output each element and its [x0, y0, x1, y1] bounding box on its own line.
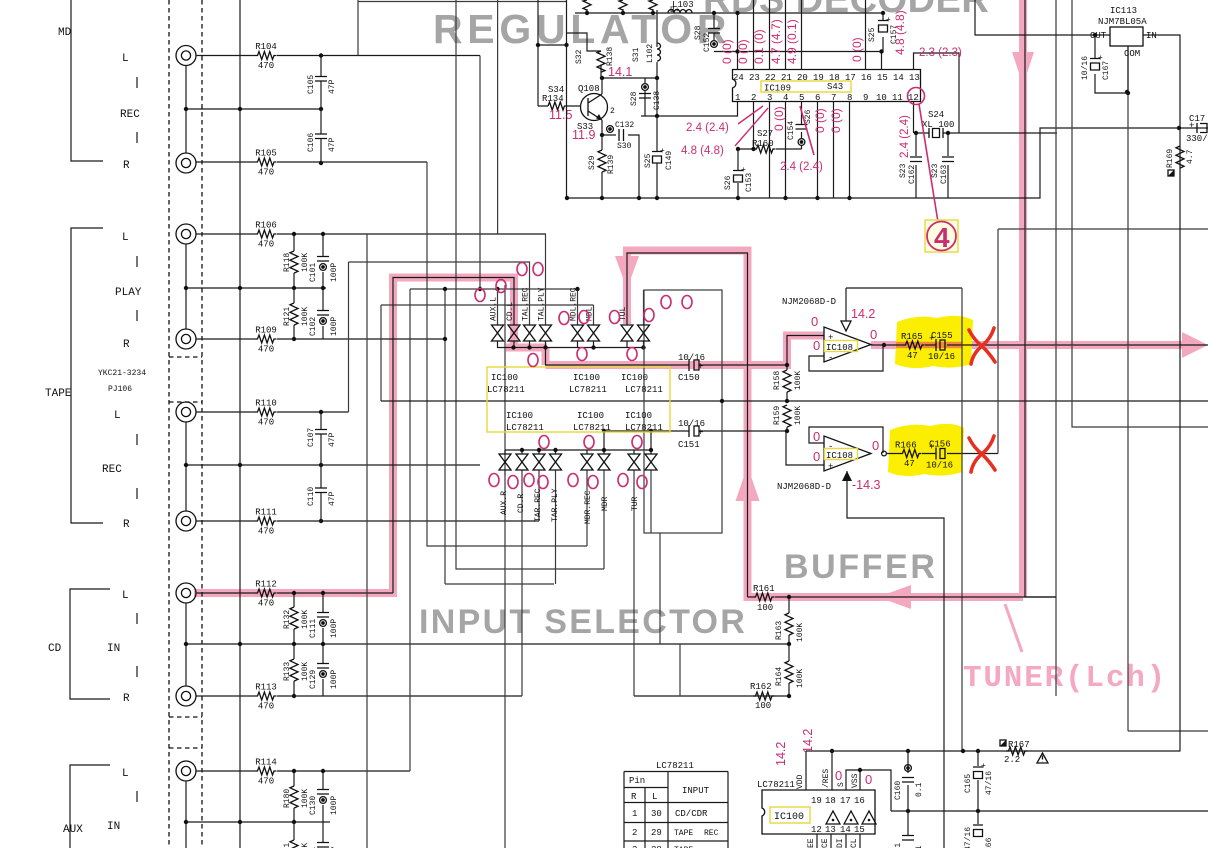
- arrow pink left on tuner line: [878, 585, 911, 609]
- svg-text:COM: COM: [1124, 49, 1140, 59]
- capacitor C155 10/16: [936, 339, 945, 351]
- svg-text:+: +: [828, 333, 833, 343]
- wire TAPE REC vertical: [186, 422, 480, 511]
- svg-text:100K: 100K: [796, 623, 805, 642]
- svg-text:0.1: 0.1: [915, 782, 924, 797]
- capacitor C167 10/16 electrolytic: [1095, 35, 1128, 93]
- svg-text:LC78211: LC78211: [656, 761, 694, 771]
- wire AUX L line: [196, 770, 410, 772]
- switch row bottom CD.R: [516, 454, 528, 470]
- svg-text:10/16: 10/16: [928, 352, 955, 362]
- switch row bottom TUR: [628, 454, 640, 470]
- wire vertical x998: [998, 229, 1208, 454]
- IC109 package body: [733, 70, 921, 102]
- capacitor C129 100P: [322, 644, 324, 663]
- svg-text:100: 100: [757, 603, 773, 613]
- resistor R167 2.2: [1006, 747, 1028, 755]
- label IC109 S43 yellow box: [761, 81, 851, 92]
- svg-text:0 (0): 0 (0): [720, 39, 734, 64]
- resistor R165 47: [903, 341, 925, 349]
- svg-text:100P: 100P: [330, 796, 339, 815]
- switch row bottom TAR.PLY: [550, 454, 562, 470]
- svg-text:LC78211: LC78211: [506, 423, 544, 433]
- arrow pink right at output edge: [1182, 332, 1208, 358]
- switch row top CD.L: [508, 325, 520, 341]
- svg-text:0: 0: [811, 314, 818, 329]
- svg-text:R: R: [123, 339, 130, 351]
- svg-text:IN: IN: [107, 643, 120, 655]
- svg-text:L: L: [122, 53, 129, 65]
- svg-text:11.9: 11.9: [572, 128, 595, 142]
- svg-text:C110: C110: [307, 487, 316, 506]
- svg-text:12: 12: [811, 825, 822, 835]
- connector CD R: [176, 686, 196, 706]
- wire TUL second column stub: [643, 290, 645, 325]
- svg-text:+: +: [698, 428, 703, 438]
- resistor top cut 3: [649, 0, 657, 10]
- power pin lower opamp: [847, 471, 944, 848]
- switch row top AUX.L: [492, 325, 504, 341]
- svg-text:IN: IN: [107, 821, 120, 833]
- leader pink to TUNER label: [1005, 604, 1022, 652]
- resistor R113 470: [255, 692, 277, 700]
- wire CD vertical: [186, 603, 789, 686]
- svg-text:R111: R111: [255, 508, 277, 518]
- svg-text:IC108: IC108: [826, 343, 853, 353]
- svg-text:MDR.REC: MDR.REC: [584, 490, 593, 524]
- svg-text:0.1 (0): 0.1 (0): [752, 29, 766, 64]
- connector AUX L: [176, 761, 196, 781]
- wire TAPE PLAY vertical: [186, 244, 326, 329]
- svg-text:+: +: [886, 16, 891, 25]
- svg-text:TUNER(Lch): TUNER(Lch): [963, 661, 1167, 696]
- svg-text:LC78211: LC78211: [487, 385, 525, 395]
- svg-text:S23: S23: [931, 163, 940, 178]
- switch matrix zero ovals bottom row: [489, 436, 647, 489]
- ground bus x240: [239, 0, 241, 848]
- wire TUL feed black under pink: [627, 253, 748, 597]
- wire loop box around TU switches: [644, 290, 722, 533]
- svg-text:13: 13: [909, 73, 920, 83]
- svg-text:47: 47: [907, 351, 918, 361]
- capacitor C175 330 electrolytic right edge: [1197, 123, 1207, 133]
- resistor top cut 1: [583, 0, 591, 10]
- svg-text:MD: MD: [58, 27, 72, 39]
- wire AUX R column down: [504, 285, 506, 848]
- wire long vertical x1128: [1128, 46, 1208, 731]
- wire long vertical x1074: [1072, 0, 1208, 427]
- wire ground rail y811: [891, 810, 1208, 812]
- svg-text:C132: C132: [615, 121, 634, 130]
- svg-text:0: 0: [870, 327, 877, 342]
- crystal S24 XL100: [916, 132, 1057, 134]
- red X mark lower: [969, 436, 995, 472]
- svg-text:S26: S26: [724, 175, 733, 190]
- inductor L102 S31: [656, 10, 658, 116]
- switch row top TUL: [621, 325, 633, 341]
- svg-text:CL: CL: [850, 838, 859, 848]
- svg-text:AUX.L: AUX.L: [490, 297, 499, 321]
- svg-text:4: 4: [934, 222, 950, 253]
- svg-text:NJM2068D-D: NJM2068D-D: [782, 297, 836, 307]
- svg-text:2.4 (2.4): 2.4 (2.4): [686, 122, 729, 134]
- svg-text:IC100: IC100: [621, 373, 648, 383]
- svg-text:1: 1: [735, 93, 740, 103]
- resistor R134 base: [564, 105, 581, 107]
- svg-text:16: 16: [854, 796, 865, 806]
- svg-text:47P: 47P: [328, 79, 337, 94]
- leader lines to pins: [735, 106, 768, 146]
- svg-text:C160: C160: [894, 781, 903, 800]
- svg-text:S25: S25: [644, 153, 653, 168]
- capacitor C110 47P: [320, 465, 322, 488]
- resistor R105 470: [255, 158, 277, 166]
- wire long feed from top x497: [497, 0, 499, 234]
- capacitor C150 10/16 electrolytic: [689, 359, 699, 371]
- svg-text:19: 19: [811, 796, 822, 806]
- svg-text:LC78211: LC78211: [625, 385, 663, 395]
- resistor R114 470: [255, 767, 277, 775]
- svg-text:0 (0): 0 (0): [850, 37, 864, 62]
- svg-text:0 (0): 0 (0): [736, 39, 750, 64]
- wire opamp2 output: [887, 453, 998, 455]
- wire collector line: [602, 77, 657, 79]
- resistor R132 100K: [293, 593, 295, 607]
- power pin upper opamp: [846, 288, 962, 327]
- bracket MD: [71, 0, 103, 161]
- svg-text:TAPE: TAPE: [45, 388, 72, 400]
- svg-text:LC78211: LC78211: [757, 780, 795, 790]
- wire supply rail y751: [806, 750, 1180, 752]
- leader to circle 4: [919, 104, 938, 222]
- svg-text:AUX: AUX: [63, 824, 83, 836]
- svg-text:R181: R181: [283, 843, 292, 848]
- wire PLAY L to TAL.PLY: [545, 234, 547, 325]
- svg-text:4.7 (4.7): 4.7 (4.7): [769, 19, 783, 64]
- svg-text:R109: R109: [255, 326, 277, 336]
- wire base feed jog: [538, 0, 567, 106]
- op-amp IC108 upper: [824, 327, 871, 362]
- svg-text:470: 470: [258, 702, 274, 712]
- svg-text:CE: CE: [821, 838, 830, 848]
- switch row bottom MDR.REC: [581, 454, 593, 470]
- svg-text:R: R: [631, 792, 637, 802]
- svg-text:R: R: [123, 160, 130, 172]
- svg-text:IC100: IC100: [506, 411, 533, 421]
- wire TAPE REC L line: [196, 411, 349, 413]
- yellow box IC100 switch bank: [487, 367, 670, 432]
- svg-text:R: R: [123, 693, 130, 705]
- wire long vertical x1056: [1055, 0, 1057, 696]
- capacitor C101 100P: [322, 234, 324, 256]
- svg-text:R133: R133: [283, 662, 292, 681]
- svg-text:R160: R160: [752, 139, 774, 149]
- resistor R158 100K: [783, 370, 791, 392]
- svg-text:C167: C167: [1102, 61, 1111, 80]
- wire long vertical black in pink x1025: [1025, 0, 1056, 597]
- wire MD R to MDR column: [427, 162, 587, 546]
- resistor R112 470: [255, 589, 277, 597]
- svg-text:100: 100: [755, 701, 771, 711]
- wire pink highlight TU elbow: [627, 251, 752, 602]
- wire MD group vertical: [186, 66, 321, 153]
- svg-text:10: 10: [876, 93, 887, 103]
- svg-text:10/16: 10/16: [678, 419, 705, 429]
- svg-text:IC113: IC113: [1110, 6, 1137, 16]
- svg-text:4.9 (0.1): 4.9 (0.1): [785, 19, 799, 64]
- svg-text:R158: R158: [773, 371, 782, 390]
- red X mark upper: [969, 328, 995, 364]
- resistor R139 S29: [601, 135, 603, 150]
- svg-text:L: L: [114, 410, 121, 422]
- bracket CD: [70, 589, 110, 699]
- svg-text:+: +: [698, 362, 703, 372]
- capacitor C160 0.1: [907, 751, 909, 811]
- circled pin 12: [908, 88, 925, 105]
- wire regulator ground bus: [567, 128, 1208, 198]
- svg-text:166: 166: [985, 837, 994, 848]
- svg-text:0: 0: [835, 768, 842, 783]
- wire AUX vertical: [186, 781, 330, 848]
- connector MD L: [176, 46, 196, 66]
- svg-text:R163: R163: [775, 621, 784, 640]
- warning triangle: [1037, 753, 1048, 763]
- svg-text:C163: C163: [940, 165, 949, 184]
- wire buffered L line through C150: [546, 336, 825, 366]
- svg-text:S32: S32: [575, 49, 584, 64]
- svg-text:C154: C154: [787, 121, 796, 140]
- svg-text:R165: R165: [901, 332, 923, 342]
- svg-text:2: 2: [751, 93, 756, 103]
- svg-text:C149: C149: [665, 151, 674, 170]
- wire MDL feed y305: [381, 305, 594, 401]
- svg-text:PJ106: PJ106: [108, 385, 132, 394]
- wire switch output bus top row: [498, 341, 644, 348]
- svg-text:0: 0: [813, 449, 820, 464]
- svg-text:470: 470: [258, 61, 274, 71]
- svg-text:2.2: 2.2: [1004, 755, 1020, 765]
- dashed connector boundary line 1: [168, 0, 170, 848]
- svg-text:10/16: 10/16: [926, 461, 953, 471]
- svg-text:R167: R167: [1008, 740, 1030, 750]
- feedback loop lower opamp: [809, 427, 883, 453]
- svg-text:R132: R132: [283, 610, 292, 629]
- svg-text:47/16: 47/16: [964, 827, 973, 848]
- wire long vertical x367: [366, 234, 368, 848]
- svg-text:IC100: IC100: [625, 411, 652, 421]
- svg-text:2.4 (2.4): 2.4 (2.4): [899, 115, 911, 158]
- svg-text:470: 470: [258, 168, 274, 178]
- svg-text:470: 470: [258, 418, 274, 428]
- svg-text:L: L: [122, 232, 129, 244]
- wire left regulator rail: [566, 0, 568, 198]
- capacitor C166 47/16 partial: [977, 811, 979, 824]
- switch row top TAL.PLY: [540, 325, 552, 341]
- svg-text:R121: R121: [283, 307, 292, 326]
- svg-text:S31: S31: [632, 47, 641, 62]
- switch row bottom MDR: [598, 454, 610, 470]
- wire tuner line black: [748, 596, 1057, 598]
- svg-text:18: 18: [825, 796, 836, 806]
- connector TAPE REC R: [176, 511, 196, 531]
- switch matrix zero ovals top row: [475, 263, 692, 367]
- capacitor C162 S23: [915, 133, 917, 198]
- svg-text:2: 2: [610, 107, 615, 116]
- svg-text:L: L: [122, 590, 129, 602]
- svg-text:AUX.R: AUX.R: [500, 491, 509, 515]
- svg-text:470: 470: [258, 345, 274, 355]
- capacitor C132 S30: [602, 135, 639, 198]
- svg-text:S27: S27: [757, 129, 773, 139]
- svg-text:S23: S23: [899, 163, 908, 178]
- svg-text:47P: 47P: [328, 491, 337, 506]
- resistor R104 470: [255, 52, 277, 60]
- svg-text:IC100: IC100: [774, 812, 804, 823]
- resistor R118 100K: [293, 234, 295, 251]
- svg-text:RDS DECODER: RDS DECODER: [703, 0, 989, 21]
- svg-text:+: +: [981, 762, 986, 771]
- svg-text:0: 0: [865, 772, 872, 787]
- svg-text:CD/CDR: CD/CDR: [675, 809, 708, 819]
- resistor R181 100K partial bottom: [293, 822, 295, 840]
- svg-text:R134: R134: [542, 94, 564, 104]
- wires IC100 top pins: [806, 751, 891, 811]
- junction dots left column: [184, 107, 188, 111]
- svg-text:29: 29: [651, 828, 662, 838]
- bracket AUX: [70, 765, 110, 848]
- svg-text:14.2: 14.2: [801, 729, 815, 753]
- wire pink highlight opamp output: [871, 341, 1192, 349]
- svg-text:R159: R159: [773, 406, 782, 425]
- resistor R161 100: [753, 593, 775, 601]
- resistor R138 S32: [597, 51, 605, 72]
- capacitor C163 S23: [947, 133, 949, 198]
- capacitor C131 100P partial bottom: [322, 822, 324, 842]
- svg-text:11.5: 11.5: [549, 108, 572, 122]
- wire opamp1 output: [871, 344, 1208, 346]
- svg-text:R169: R169: [1166, 149, 1175, 168]
- wire CD common extension: [679, 644, 681, 696]
- wire TAPE PLAY L line: [196, 233, 546, 235]
- switch row top MDL: [588, 325, 600, 341]
- svg-text:100P: 100P: [330, 670, 339, 689]
- capacitor C154 on pin5: [801, 102, 803, 149]
- capacitor C152 S28: [713, 13, 715, 28]
- svg-text:CD.L: CD.L: [506, 302, 515, 321]
- capacitor C111 100P: [322, 593, 324, 612]
- capacitor C102 100P: [322, 288, 324, 310]
- svg-text:R118: R118: [283, 253, 292, 272]
- svg-text:C105: C105: [307, 75, 316, 94]
- svg-text:XL 100: XL 100: [922, 120, 954, 130]
- svg-text:C101: C101: [309, 263, 318, 282]
- capacitor C165 47/16 electrolytic: [977, 751, 979, 811]
- svg-text:0 (0): 0 (0): [813, 108, 827, 133]
- svg-text:4.8 (4.8): 4.8 (4.8): [893, 10, 907, 55]
- bracket TAPE: [71, 228, 103, 523]
- svg-text:R164: R164: [775, 667, 784, 686]
- svg-text:IC108: IC108: [826, 451, 853, 461]
- svg-text:S26: S26: [804, 109, 813, 124]
- svg-text:470: 470: [258, 599, 274, 609]
- svg-text:4.8 (4.8): 4.8 (4.8): [681, 145, 724, 157]
- svg-text:TUR: TUR: [631, 496, 640, 511]
- svg-text:R161: R161: [753, 584, 775, 594]
- svg-text:-14.3: -14.3: [852, 478, 881, 492]
- svg-text:S43: S43: [827, 82, 843, 92]
- resistor top cut 2: [619, 0, 627, 10]
- svg-text:PLAY: PLAY: [115, 287, 142, 299]
- capacitor C149 S25 electrolytic: [656, 116, 658, 198]
- svg-text:10/16: 10/16: [1081, 56, 1090, 80]
- svg-text:14.2: 14.2: [774, 742, 788, 766]
- arrow pink down into IC109 area: [1012, 52, 1034, 85]
- wire MD L down x480: [479, 56, 481, 290]
- svg-text:C152: C152: [703, 33, 712, 52]
- wires IC100 bottom pins: [817, 834, 860, 848]
- resistor R160 S27: [738, 148, 802, 150]
- svg-text:CD: CD: [48, 643, 62, 655]
- svg-text:C162: C162: [908, 165, 917, 184]
- connector MD R: [176, 153, 196, 173]
- svg-text:470: 470: [258, 527, 274, 537]
- svg-text:R105: R105: [255, 149, 277, 159]
- wire AUX L to AUX.L column: [410, 289, 578, 771]
- svg-text:2.4 (2.4): 2.4 (2.4): [780, 161, 823, 173]
- svg-text:TAR.PLY: TAR.PLY: [551, 488, 560, 522]
- wire MD R line: [196, 161, 427, 163]
- wire TAPE PLAY R line: [196, 338, 445, 340]
- resistor R180 100K: [293, 771, 295, 786]
- svg-text:R104: R104: [255, 42, 277, 52]
- arrow pink down into TUL switch: [615, 256, 639, 289]
- switch row top TAL.REC: [524, 325, 536, 341]
- wire top edge bus cut: [358, 1, 566, 3]
- svg-text:LC78211: LC78211: [569, 385, 607, 395]
- svg-text:IN: IN: [1146, 31, 1157, 41]
- capacitor C161 0.1 partial: [907, 811, 909, 835]
- dashed connector boundary line 2: [201, 0, 203, 848]
- svg-text:3: 3: [767, 93, 772, 103]
- svg-text:NJM2068D-D: NJM2068D-D: [777, 482, 831, 492]
- switch row bottom TAR.REC: [533, 454, 545, 470]
- wire TAPE REC R line: [196, 520, 539, 522]
- wire R138 branch: [567, 33, 602, 78]
- wire IC113 IN: [1143, 35, 1180, 752]
- wire long feed from top x456: [456, 0, 604, 569]
- resistor R169 4.7: [1176, 146, 1184, 168]
- svg-text:16: 16: [861, 73, 872, 83]
- switch row bottom AUX.R: [499, 454, 511, 470]
- wire CD L line: [196, 592, 393, 594]
- svg-text:MDL.REC: MDL.REC: [570, 287, 579, 321]
- svg-text:L: L: [122, 768, 129, 780]
- yellow highlight blob over R166 C156: [888, 424, 964, 476]
- svg-text:C102: C102: [309, 317, 318, 336]
- svg-text:0: 0: [813, 429, 820, 444]
- svg-text:100K: 100K: [794, 406, 803, 425]
- svg-text:IC100: IC100: [577, 411, 604, 421]
- svg-text:+: +: [828, 462, 833, 472]
- svg-text:C150: C150: [678, 373, 700, 383]
- svg-text:23: 23: [749, 73, 760, 83]
- svg-text:YKC21-3234: YKC21-3234: [98, 369, 146, 378]
- svg-text:C130: C130: [309, 796, 318, 815]
- svg-text:REC: REC: [120, 109, 140, 121]
- svg-text:R106: R106: [255, 221, 277, 231]
- svg-text:TAPE: TAPE: [674, 829, 693, 838]
- svg-text:R110: R110: [255, 399, 277, 409]
